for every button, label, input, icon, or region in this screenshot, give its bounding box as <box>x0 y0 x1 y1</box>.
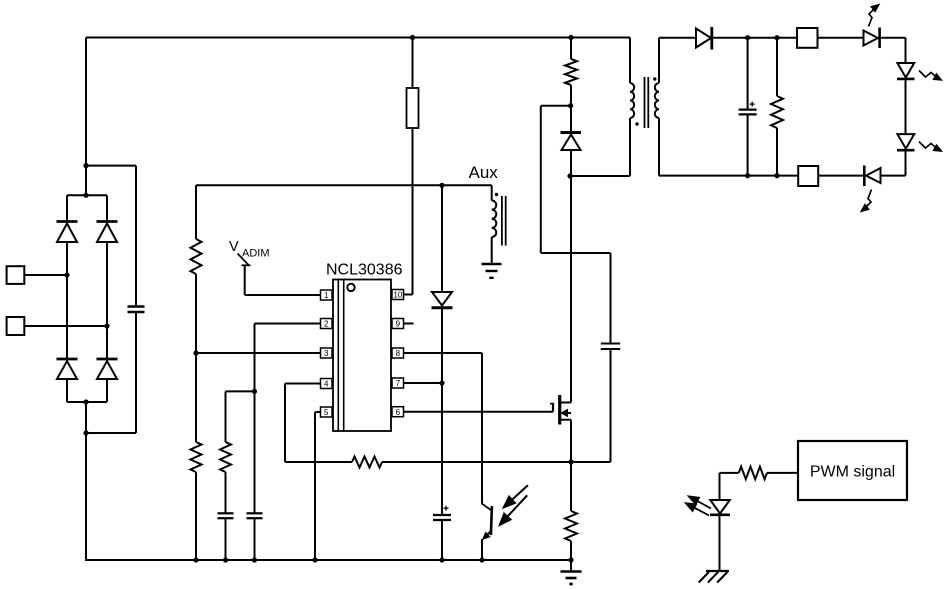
wire D12 to chassis ground <box>719 515 721 571</box>
wire secondary bottom <box>659 118 798 176</box>
wire pin 2 net <box>255 324 321 514</box>
ground chassis (PWM) <box>699 571 729 583</box>
wire R3 to C2 <box>225 472 227 513</box>
wire R1 to R2 <box>195 274 197 442</box>
wire R6 to clamp node <box>570 85 572 131</box>
pin 3 U1 <box>321 348 333 358</box>
terminal J2 (AC input neutral) <box>7 317 25 335</box>
wire source to CS rail <box>570 420 572 462</box>
junction Vcc row D5 <box>439 183 444 188</box>
diode D5 (Vcc rectifier) <box>432 292 453 308</box>
pin 6 U1 <box>392 407 404 417</box>
junction ground rail end <box>568 557 573 562</box>
wire C2 to ground rail <box>225 518 227 560</box>
LED D9 emission arrow <box>919 71 942 81</box>
LED D8 emission arrow <box>869 4 880 26</box>
node primary phase dot <box>635 122 638 125</box>
wire top HV rail <box>86 37 630 39</box>
wire left rail upper <box>85 38 87 197</box>
wire J1 to bridge <box>24 274 67 276</box>
LED D10 emission arrow <box>919 142 942 152</box>
op-amp U1 NCL30386 body <box>333 280 391 432</box>
wire output top rail <box>712 37 797 39</box>
diode D4 (bridge bottom-right) <box>97 359 118 402</box>
junction ground rail R2 <box>193 557 198 562</box>
resistor R3 (compensation) <box>220 442 231 472</box>
wire R9 to LED corner <box>720 473 739 500</box>
LED D12 (opto emitter) <box>710 500 730 515</box>
pin 1 U1 <box>321 290 333 300</box>
LED D11 emission arrow <box>861 190 872 212</box>
pin 5 U1 <box>321 407 333 417</box>
diode D3 (bridge bottom-left) <box>57 359 78 402</box>
junction source CS <box>568 459 573 464</box>
LED D9 (string right upper) <box>897 63 915 79</box>
pin 10 U1 <box>392 290 404 300</box>
junction bulk-cap top <box>83 163 88 168</box>
ground main <box>561 572 582 585</box>
LED D10 (string right lower) <box>897 134 915 150</box>
wire D6 to drain node <box>570 150 572 176</box>
wire snubber left leg <box>541 106 571 253</box>
transformer T1 primary winding <box>630 83 634 118</box>
resistor R8 (CS to ground) <box>565 511 577 541</box>
wire primary top <box>629 38 631 84</box>
transistor Q2 (power MOSFET) <box>550 395 571 425</box>
capacitor C3 (pin2 filter) <box>247 513 263 518</box>
node VADIM input marker <box>238 254 251 267</box>
wire VADIM to pin 1 <box>245 265 321 295</box>
wire pin 9 stub <box>404 323 414 325</box>
junction bulk-cap bottom <box>83 430 88 435</box>
wire bottom ground rail <box>85 559 571 561</box>
wire primary bottom <box>629 118 631 176</box>
wire bridge right column <box>106 242 108 359</box>
junction bridge bottom <box>83 399 88 404</box>
inductor L1 core <box>502 196 506 246</box>
pin 4 U1 <box>321 379 333 389</box>
wire LED3 to corner <box>881 150 906 175</box>
wire C3 to ground rail <box>254 518 256 560</box>
wire snubber middle leg <box>541 253 611 344</box>
opto light arrow 2 <box>499 495 527 526</box>
junction drain node <box>567 173 572 178</box>
wire bulk-cap top branch <box>86 166 136 306</box>
svg-text:Aux: Aux <box>469 163 499 182</box>
resistor R1 (ADIM divider upper) <box>191 239 202 274</box>
svg-text:3: 3 <box>324 349 329 358</box>
junction ground rail C3 <box>252 557 257 562</box>
node secondary phase dot <box>653 77 656 80</box>
junction ground rail Q1 <box>479 557 484 562</box>
pin 8 U1 <box>392 348 404 358</box>
wire bridge bottom bus <box>67 401 107 403</box>
diode D2 (bridge top-right) <box>97 195 118 242</box>
LED D11 (string bottom) <box>864 166 880 187</box>
junction ground rail pin5 <box>312 557 317 562</box>
wire startup resistor top <box>412 38 414 89</box>
svg-text:NCL30386: NCL30386 <box>326 262 403 279</box>
diode D1 (bridge top-left) <box>57 195 78 242</box>
junction clamp node <box>568 103 573 108</box>
junction load resistor bottom <box>774 173 779 178</box>
wire output cap drop <box>747 38 749 110</box>
junction top rail R5 <box>410 35 415 40</box>
transistor Q1 (opto phototransistor) <box>482 504 492 560</box>
wire pin 4 net <box>285 384 321 463</box>
terminal J4 (LED- output) <box>798 166 818 186</box>
capacitor C4 (Vcc, polarized) <box>433 506 451 520</box>
svg-text:2: 2 <box>324 320 329 329</box>
wire C4 to ground rail <box>441 520 443 560</box>
label VADIM <box>229 239 270 260</box>
pin 9 U1 <box>392 319 404 329</box>
wire left rail lower <box>85 402 87 561</box>
wire R7 to bottom <box>776 128 778 176</box>
junction bridge top <box>83 193 88 198</box>
svg-text:1: 1 <box>324 291 329 300</box>
transformer T1 core <box>645 77 649 128</box>
resistor R4 (current sense) <box>352 457 382 468</box>
svg-text:6: 6 <box>396 408 401 417</box>
diode D6 (clamp) <box>561 133 582 151</box>
wire output cap to bottom <box>747 114 749 175</box>
junction top rail R6 <box>568 35 573 40</box>
resistor R9 (PWM series) <box>739 467 767 480</box>
PWM signal box <box>798 441 907 500</box>
junction pin7 Vcc <box>439 380 444 385</box>
capacitor C5 (snubber) <box>601 344 620 350</box>
svg-text:V: V <box>229 239 239 255</box>
wire R5 to pin 10 <box>404 128 413 295</box>
junction ground rail C4 <box>439 557 444 562</box>
wire pin 5 net <box>315 412 321 560</box>
resistor R6 (clamp) <box>565 59 577 85</box>
wire J3 to LED1 <box>818 37 864 39</box>
wire snubber to CS rail <box>610 349 612 462</box>
wire pin2 branch to R3 chain <box>226 391 255 442</box>
resistor R7 (preload) <box>771 96 783 128</box>
wire pin 7 net <box>404 382 443 384</box>
resistor R5 (startup, box style) <box>407 88 419 128</box>
node aux phase dot <box>495 193 498 196</box>
capacitor C2 (compensation) <box>218 513 234 518</box>
pin 2 U1 <box>321 319 333 329</box>
label NCL30386 <box>326 262 403 279</box>
wire pin 8 net <box>404 353 483 504</box>
wire CS rail right <box>382 461 611 463</box>
wire pin 6 gate net <box>404 411 554 413</box>
junction J1 node <box>64 272 69 277</box>
wire J2 to bridge <box>24 325 107 327</box>
diode D7 (output rectifier) <box>696 27 712 50</box>
svg-text:4: 4 <box>324 380 329 389</box>
wire bulk-cap bottom branch <box>86 312 136 433</box>
capacitor C1 (bulk filter) <box>128 307 145 313</box>
wire bridge top bus <box>67 194 107 196</box>
wire LED2 to LED3 <box>905 79 907 134</box>
svg-text:10: 10 <box>393 291 402 300</box>
wire bridge left column <box>66 242 68 359</box>
junction J2 node <box>104 323 109 328</box>
wire PWM box to R9 <box>767 472 798 474</box>
pin 7 U1 <box>392 378 404 388</box>
resistor R2 (ADIM divider lower) <box>191 442 202 472</box>
wire CS node to R8 <box>570 462 572 511</box>
junction load resistor top <box>774 35 779 40</box>
junction ADIM divider tap <box>193 350 198 355</box>
LED D12 emission arrow 2 <box>685 503 709 516</box>
capacitor C6 (output, polarized) <box>739 102 757 115</box>
wire top rail to R6 <box>570 38 572 60</box>
svg-text:7: 7 <box>396 379 401 388</box>
wire D5 to Vcc cap <box>441 308 443 515</box>
label Aux <box>469 163 499 182</box>
svg-text:8: 8 <box>396 349 401 358</box>
transformer T1 secondary winding <box>655 83 659 118</box>
junction output cap bottom <box>745 173 750 178</box>
svg-text:5: 5 <box>324 408 329 417</box>
wire drain <box>570 176 572 403</box>
wire Vcc row left drop <box>195 185 197 239</box>
svg-text:9: 9 <box>396 320 401 329</box>
wire Vcc row to D5 <box>441 185 443 292</box>
LED D8 (string top) <box>864 28 880 49</box>
junction output cap top <box>745 35 750 40</box>
resistor R7 (preload) top wire <box>776 38 778 96</box>
wire secondary top <box>659 38 696 83</box>
svg-text:PWM signal: PWM signal <box>810 464 895 481</box>
terminal J3 (LED+ output) <box>797 28 818 48</box>
wire Vcc row <box>196 184 492 186</box>
wire pin 3 net <box>196 352 321 354</box>
wire LED1 to corner <box>880 38 906 63</box>
terminal J1 (AC input line) <box>7 266 25 284</box>
junction ground rail R3 <box>223 557 228 562</box>
LED D12 emission arrow 1 <box>688 496 711 509</box>
inductor L1 (aux winding) <box>492 185 497 263</box>
wire R2 to ground rail <box>195 472 197 560</box>
opto light arrow 1 <box>503 485 528 508</box>
wire CS rail left <box>285 461 352 463</box>
ground aux <box>482 264 502 278</box>
svg-text:ADIM: ADIM <box>242 248 270 260</box>
junction pin2 branch <box>252 389 257 394</box>
wire LED4 to J4 <box>818 175 864 177</box>
wire R8 to ground <box>570 541 572 571</box>
wire drain node to primary <box>570 175 630 177</box>
